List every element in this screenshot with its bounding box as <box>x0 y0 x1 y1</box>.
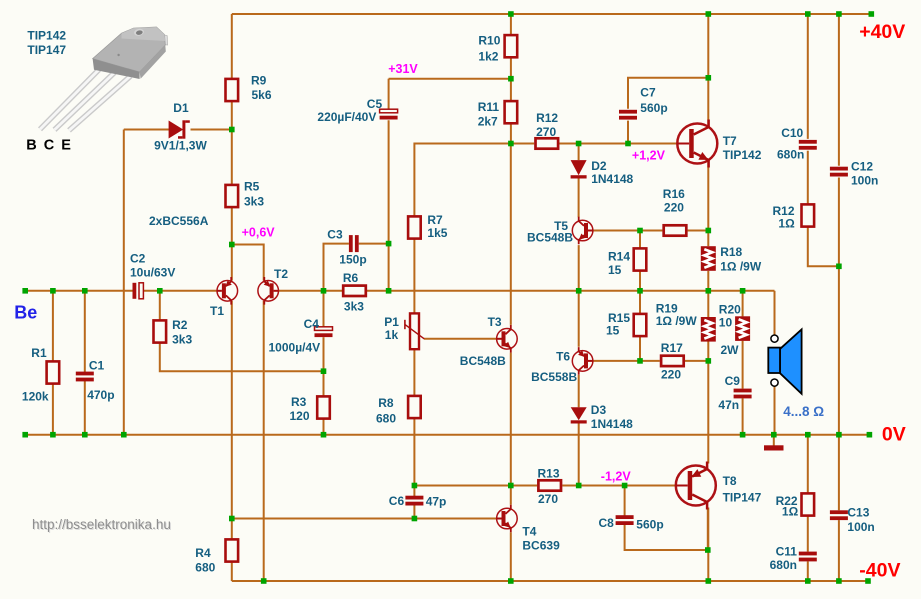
node C8/T8 collector <box>705 547 711 553</box>
wire R3 top <box>323 371 325 395</box>
resistor R7 1k5 <box>408 216 421 238</box>
wire T6 base link <box>593 360 640 362</box>
svg-text:R18: R18 <box>720 245 742 259</box>
wire R6 left <box>324 290 343 292</box>
svg-text:Be: Be <box>14 303 37 323</box>
svg-text:BC548B: BC548B <box>527 231 573 245</box>
wire C7 top loop <box>628 78 708 109</box>
potentiometer P1 1k <box>405 313 424 349</box>
node +40V rail C12 <box>836 11 842 17</box>
wire T1 collector column <box>231 301 233 519</box>
svg-text:15: 15 <box>606 324 620 338</box>
svg-text:-40V: -40V <box>859 559 900 581</box>
node 0V terminal left <box>22 432 28 438</box>
TIP142/TIP147 package drawing <box>40 27 168 130</box>
svg-text:C13: C13 <box>847 506 869 520</box>
node R17/R19 node <box>706 358 712 364</box>
svg-text:B: B <box>26 138 36 154</box>
capacitor C12 100n <box>830 167 848 177</box>
wire T6 emitter <box>578 291 580 347</box>
svg-text:C8: C8 <box>599 516 615 530</box>
svg-text:R17: R17 <box>661 341 683 355</box>
svg-text:15: 15 <box>608 263 622 277</box>
node 0V speaker/ground <box>771 432 777 438</box>
capacitor C5 220uF <box>380 109 398 119</box>
capacitor C9 47n <box>734 389 752 399</box>
svg-text:R10: R10 <box>478 34 500 48</box>
wire bias to T7 base <box>628 143 679 145</box>
svg-text:560p: 560p <box>636 518 663 532</box>
svg-text:3k3: 3k3 <box>172 333 192 347</box>
svg-text:T6: T6 <box>556 350 570 364</box>
wire C6 top <box>413 486 415 497</box>
wire R9 column <box>231 14 233 79</box>
power resistor R19 1R/9W <box>701 317 716 342</box>
svg-text:5k6: 5k6 <box>252 88 272 102</box>
node R16/T7 emitter <box>706 228 712 234</box>
wire R10 top <box>510 14 512 34</box>
node -1,2V T4 collector <box>508 483 514 489</box>
svg-text:+40V: +40V <box>859 21 905 43</box>
svg-text:470p: 470p <box>87 388 114 402</box>
wire T4 collector <box>510 486 512 505</box>
wire D2 anode <box>578 144 580 161</box>
node R12b/C12 node <box>836 264 842 270</box>
svg-text:270: 270 <box>536 125 556 139</box>
node output R18/R19 <box>706 288 712 294</box>
wire R15 top <box>639 291 641 313</box>
svg-text:R1: R1 <box>31 346 47 360</box>
svg-text:1k5: 1k5 <box>427 226 447 240</box>
transistor T1 BC556A <box>217 277 238 305</box>
wire +31V link <box>389 78 511 80</box>
svg-text:R4: R4 <box>195 546 211 560</box>
svg-text:1N4148: 1N4148 <box>591 417 633 431</box>
svg-text:BC639: BC639 <box>522 539 560 553</box>
transistor T2 BC556A <box>258 277 279 305</box>
wire R20 top <box>742 291 744 317</box>
node -40V C13 <box>836 578 842 584</box>
node -40V T2 <box>261 578 267 584</box>
capacitor C11 680n <box>799 552 817 562</box>
svg-text:TIP142: TIP142 <box>27 28 66 42</box>
wire -40V rail <box>232 580 868 582</box>
node T6 base node <box>637 358 643 364</box>
wire R20 to C9 <box>742 341 744 389</box>
wire P1 to R8 <box>413 349 415 395</box>
svg-text:10u/63V: 10u/63V <box>130 266 175 280</box>
svg-text:R2: R2 <box>172 318 188 332</box>
svg-text:C1: C1 <box>89 358 105 372</box>
node +40V rail T7 <box>706 11 712 17</box>
wire T3 base link <box>424 338 496 340</box>
node -1,2V D3 <box>576 483 582 489</box>
svg-text:C5: C5 <box>367 97 383 111</box>
wire T4 base line <box>232 518 497 520</box>
svg-text:R5: R5 <box>244 180 260 194</box>
resistor R17 220 <box>661 356 684 366</box>
wire C12 top <box>838 14 840 166</box>
wire R19 to T8 emitter <box>707 361 709 464</box>
wire R14 top <box>639 231 641 248</box>
svg-text:TIP147: TIP147 <box>27 43 66 57</box>
wire T7 emitter to R18 <box>707 162 709 246</box>
svg-text:2xBC556A: 2xBC556A <box>149 214 209 228</box>
power resistor R20 10/2W <box>735 316 750 341</box>
svg-text:R11: R11 <box>478 100 500 114</box>
svg-text:3k3: 3k3 <box>244 195 264 209</box>
wire C10 top <box>807 14 809 139</box>
wire C13 top <box>838 435 840 511</box>
transistor T5 BC548B <box>572 217 593 245</box>
node T4 base line R4 <box>229 516 235 522</box>
wire R4 top <box>231 519 233 539</box>
svg-text:270: 270 <box>538 492 558 506</box>
svg-text:T2: T2 <box>274 267 288 281</box>
wire R8 bottom <box>413 419 415 486</box>
wire T3 emitter to T4 node <box>510 353 512 486</box>
wire R19 top <box>707 291 709 317</box>
svg-text:C2: C2 <box>130 251 146 265</box>
wire R15 bottom <box>639 337 641 361</box>
svg-text:680: 680 <box>195 560 215 574</box>
svg-text:220: 220 <box>661 368 681 382</box>
wire R22 to C11 <box>807 516 809 551</box>
svg-text:D2: D2 <box>591 159 607 173</box>
wire C12 bottom <box>838 178 840 435</box>
svg-text:C10: C10 <box>781 126 803 140</box>
node input C1 <box>82 288 88 294</box>
node 0V C13 <box>836 432 842 438</box>
wire +40V rail <box>232 13 872 15</box>
ground <box>764 445 784 450</box>
svg-text:1Ω: 1Ω <box>782 505 799 519</box>
svg-text:TIP147: TIP147 <box>723 490 762 504</box>
wire speaker top link <box>774 291 776 335</box>
wire bias to R12 <box>511 143 534 145</box>
wire C5 top <box>388 79 390 109</box>
capacitor C1 470p <box>76 372 94 382</box>
wire R1 bottom <box>52 384 54 434</box>
wire T5 base link <box>593 230 640 232</box>
node bias C7 <box>625 141 631 147</box>
svg-text:R6: R6 <box>343 271 359 285</box>
resistor R12 270 <box>536 138 559 148</box>
node output C5/R6 <box>386 288 392 294</box>
svg-text:1k2: 1k2 <box>478 49 498 63</box>
resistor R12b 1R <box>802 204 815 226</box>
wire R3 bottom <box>323 419 325 434</box>
svg-text:3k3: 3k3 <box>344 299 364 313</box>
wire T3 collector column <box>510 144 512 325</box>
capacitor C13 100n <box>830 510 848 520</box>
svg-text:1Ω /9W: 1Ω /9W <box>656 314 698 328</box>
wire D1 cathode to node <box>191 129 232 131</box>
svg-text:1000µ/4V: 1000µ/4V <box>269 341 321 355</box>
node 0V R1 <box>50 432 56 438</box>
svg-text:+0,6V: +0,6V <box>242 225 276 239</box>
wire C6 bottom <box>413 505 415 518</box>
svg-text:C3: C3 <box>327 228 343 242</box>
node C7/T7 collector <box>706 75 712 81</box>
wire R17 left <box>640 360 660 362</box>
svg-text:P1: P1 <box>384 315 399 329</box>
wire C4 bottom <box>323 337 325 371</box>
node T4 base line C6 <box>412 516 418 522</box>
svg-text:220µF/40V: 220µF/40V <box>317 110 376 124</box>
svg-text:0V: 0V <box>882 423 906 445</box>
wire R2 top <box>159 291 161 320</box>
power resistor R18 1R/9W <box>701 246 716 271</box>
svg-text:47n: 47n <box>718 398 739 412</box>
svg-text:120: 120 <box>290 409 310 423</box>
node T2 base node <box>321 288 327 294</box>
node C3/C5 node <box>386 241 392 247</box>
wire C10 to R12b <box>807 151 809 204</box>
svg-text:C6: C6 <box>389 494 405 508</box>
svg-text:T8: T8 <box>723 474 737 488</box>
wire C8 top <box>624 486 626 516</box>
svg-text:R16: R16 <box>663 187 685 201</box>
svg-text:R8: R8 <box>378 396 394 410</box>
node output R20 <box>740 288 746 294</box>
svg-text:+31V: +31V <box>388 62 418 76</box>
resistor R22 1R <box>802 493 815 515</box>
svg-text:R20: R20 <box>719 303 741 317</box>
capacitor C8 560p <box>616 515 634 525</box>
transistor T6 BC558B <box>572 347 593 375</box>
svg-text:T4: T4 <box>522 525 536 539</box>
wire T2 collector column <box>263 301 265 581</box>
wire R12 to D2 <box>559 143 628 145</box>
watermark <box>32 517 172 533</box>
svg-text:220: 220 <box>664 200 684 214</box>
svg-text:http://bsselektronika.hu: http://bsselektronika.hu <box>32 517 171 532</box>
resistor R2 3k3 <box>154 320 167 342</box>
wire C4 top <box>323 291 325 327</box>
wire R1 top <box>52 291 54 361</box>
capacitor C6 47p <box>405 496 423 506</box>
node 0V R3 <box>321 432 327 438</box>
node -1,2V C6 <box>412 483 418 489</box>
resistor R15 15 <box>634 314 647 336</box>
wire T8 emitter stub <box>707 508 709 551</box>
node 0V R22 <box>805 432 811 438</box>
node input R2 <box>157 288 163 294</box>
wire T7 collector <box>707 14 709 125</box>
wire D1 ground column <box>123 130 125 435</box>
svg-text:C9: C9 <box>725 374 741 388</box>
wire C1 top <box>84 291 86 372</box>
wire speaker bottom link <box>774 386 776 435</box>
svg-text:680: 680 <box>376 412 396 426</box>
node bias R11/R12 <box>508 141 514 147</box>
svg-text:R14: R14 <box>608 249 630 263</box>
svg-text:R9: R9 <box>251 74 267 88</box>
svg-text:C11: C11 <box>776 544 798 558</box>
wire C7 bottom <box>627 121 629 144</box>
transistor T7 TIP142 <box>677 120 717 168</box>
diode D3 1N4148 <box>571 407 587 423</box>
svg-text:2W: 2W <box>721 343 740 357</box>
wire R11 bottom <box>510 124 512 143</box>
node -40V C11 <box>805 578 811 584</box>
node input terminal <box>22 288 28 294</box>
wire emitter link T2 <box>232 245 264 281</box>
wire R5 to emitter node <box>231 207 233 244</box>
node 0V D1 <box>121 432 127 438</box>
wire C3 loop left <box>324 244 349 291</box>
node -40V terminal <box>865 578 871 584</box>
wire input line to T1 base <box>144 290 217 292</box>
node +0,6V emitters <box>229 242 235 248</box>
wire C13 bottom <box>838 520 840 581</box>
wire R6 right <box>367 290 389 292</box>
transistor T8 TIP147 <box>676 462 716 510</box>
svg-text:D3: D3 <box>591 403 607 417</box>
wire T2 base link <box>279 290 324 292</box>
wire D2 cathode to T5 <box>578 179 580 218</box>
svg-text:E: E <box>61 138 71 154</box>
wire D1 anode <box>124 129 169 131</box>
capacitor C4 1000u <box>315 327 333 337</box>
node output T5/T6 <box>576 288 582 294</box>
wire C1 bottom <box>84 381 86 435</box>
resistor R14 15 <box>634 248 647 270</box>
svg-text:R12: R12 <box>536 111 558 125</box>
wire -1,2V line left <box>414 485 537 487</box>
resistor R3 120 <box>317 396 330 418</box>
node 0V C1 <box>82 432 88 438</box>
svg-text:100n: 100n <box>847 520 874 534</box>
svg-text:680n: 680n <box>777 148 804 162</box>
svg-text:680n: 680n <box>770 558 797 572</box>
capacitor C7 560p <box>619 110 637 120</box>
node +40V rail C10 <box>805 11 811 17</box>
wire C9 bottom <box>742 398 744 434</box>
wire T5 emitter <box>578 245 580 291</box>
svg-text:T7: T7 <box>723 134 737 148</box>
node 0V terminal right <box>867 432 873 438</box>
diode D2 1N4148 <box>571 160 587 178</box>
node -1,2V C8 <box>622 483 628 489</box>
wire R4 bottom <box>231 563 233 581</box>
svg-text:100n: 100n <box>851 173 878 187</box>
svg-text:-1,2V: -1,2V <box>601 469 632 483</box>
wire D3 cathode <box>578 423 580 485</box>
svg-text:4...8 Ω: 4...8 Ω <box>783 404 824 419</box>
svg-text:TIP142: TIP142 <box>723 148 762 162</box>
svg-text:BC558B: BC558B <box>531 370 577 384</box>
node C4/R2/R3 node <box>321 368 327 374</box>
wire output rail <box>389 290 775 292</box>
wire R19 bottom <box>707 342 709 361</box>
capacitor C3 150p <box>349 235 359 252</box>
wire input line <box>25 290 132 292</box>
svg-text:C: C <box>44 138 55 154</box>
resistor R5 3k3 <box>226 185 239 207</box>
resistor R16 220 <box>664 225 687 235</box>
wire T6 collector to D3 <box>578 375 580 407</box>
wire R7 link <box>414 144 511 216</box>
svg-text:C12: C12 <box>851 160 873 174</box>
svg-text:150p: 150p <box>339 252 366 266</box>
svg-text:R13: R13 <box>538 466 560 480</box>
svg-text:1N4148: 1N4148 <box>591 172 633 186</box>
wire R16 right <box>688 230 709 232</box>
resistor R1 120k <box>47 361 60 383</box>
svg-text:1k: 1k <box>385 328 399 342</box>
transistor T4 BC639 <box>497 505 518 533</box>
svg-text:+1,2V: +1,2V <box>632 149 666 163</box>
svg-text:R3: R3 <box>291 395 307 409</box>
wire R2 bottom link <box>160 343 324 371</box>
wire R9 to D1 node <box>231 101 233 185</box>
wire ground stub <box>773 435 775 446</box>
wire C5 bottom column <box>388 120 390 290</box>
svg-text:47p: 47p <box>426 495 447 509</box>
transistor T3 BC548B <box>497 325 518 353</box>
diode D1 9V1 zener <box>169 120 190 138</box>
node bias D2 <box>576 141 582 147</box>
svg-text:T1: T1 <box>210 304 224 318</box>
svg-text:1Ω: 1Ω <box>778 217 795 231</box>
node +31V node <box>508 76 514 82</box>
svg-text:BC548B: BC548B <box>460 354 506 368</box>
wire C11 bottom <box>807 561 809 581</box>
resistor R11 2k7 <box>505 101 518 123</box>
node T5 base node <box>637 228 643 234</box>
node -40V T8 <box>706 578 712 584</box>
node -40V T4 <box>508 578 514 584</box>
wire R18 bottom <box>707 271 709 291</box>
svg-text:9V1/1,3W: 9V1/1,3W <box>154 138 207 152</box>
wire R10 to R11 <box>510 58 512 100</box>
node output R14/R15 <box>637 288 643 294</box>
wire R17 right <box>685 360 708 362</box>
speaker 4-8 ohm <box>768 329 801 393</box>
node D1 cathode node <box>229 127 235 133</box>
wire R14 bottom <box>639 271 641 290</box>
resistor R6 3k3 <box>343 286 366 296</box>
wire emitter link T1 <box>231 245 233 281</box>
node +40V rail R10 <box>508 11 514 17</box>
capacitor C10 680n <box>799 140 817 150</box>
wire C8 bottom loop <box>625 525 708 550</box>
capacitor C2 10u/63V <box>133 283 144 299</box>
svg-text:T3: T3 <box>488 315 502 329</box>
wire -1,2V line right <box>562 485 677 487</box>
wire R22 top <box>807 435 809 493</box>
svg-text:C4: C4 <box>304 317 320 331</box>
wire R16 left <box>640 230 662 232</box>
svg-text:1Ω /9W: 1Ω /9W <box>720 260 762 274</box>
svg-text:10: 10 <box>719 316 733 330</box>
svg-text:C7: C7 <box>640 85 656 99</box>
svg-text:2k7: 2k7 <box>478 114 498 128</box>
resistor R9 5k6 <box>226 79 239 101</box>
node 0V C9 <box>740 432 746 438</box>
resistor R8 680 <box>408 396 421 418</box>
node +40V terminal <box>869 11 875 17</box>
wire R12b bottom link <box>808 227 839 266</box>
wire T4 emitter <box>510 532 512 581</box>
wire T8 collector <box>707 508 709 582</box>
resistor R10 1k2 <box>505 35 518 57</box>
resistor R13 270 <box>538 480 561 490</box>
wire R7 to P1 <box>413 239 415 313</box>
node input R1 <box>50 288 56 294</box>
